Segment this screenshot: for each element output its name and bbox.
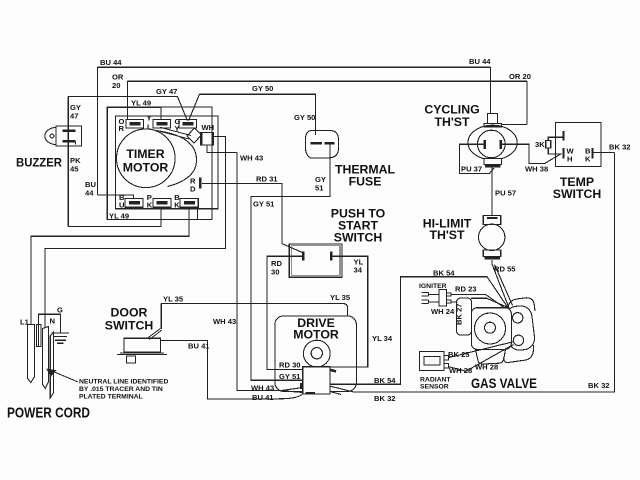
svg-text:K: K xyxy=(174,201,180,210)
svg-text:GY 51: GY 51 xyxy=(279,372,301,381)
svg-text:RADIANT: RADIANT xyxy=(420,377,451,384)
drive motor box xyxy=(275,316,357,392)
temp switch BK bar xyxy=(591,148,593,159)
wire PK45 xyxy=(68,208,161,227)
wire RD31 xyxy=(202,184,303,253)
gas valve bottom lobe right xyxy=(504,345,534,363)
temp switch box xyxy=(556,122,602,166)
power cord sheath xyxy=(50,332,53,398)
temp switch top bar xyxy=(562,131,564,141)
svg-text:GY 50: GY 50 xyxy=(294,113,315,122)
timer cam diamond xyxy=(187,128,202,143)
terminal BU xyxy=(125,198,143,207)
svg-text:BU 41: BU 41 xyxy=(188,342,210,351)
radiant sensor box xyxy=(420,352,445,371)
igniter body xyxy=(439,290,451,306)
svg-text:30: 30 xyxy=(271,268,279,277)
svg-text:BU 44: BU 44 xyxy=(100,58,122,67)
svg-text:BK 32: BK 32 xyxy=(609,143,631,152)
wire GY51 xyxy=(251,144,330,380)
terminal GY xyxy=(179,119,197,128)
svg-text:NEUTRAL LINE IDENTIFIED: NEUTRAL LINE IDENTIFIED xyxy=(79,379,168,386)
svg-text:WH: WH xyxy=(202,123,215,132)
svg-text:R: R xyxy=(119,124,125,133)
igniter forks xyxy=(422,293,439,297)
wire BK to L1 xyxy=(31,208,189,326)
svg-text:BY .015 TRACER AND TIN: BY .015 TRACER AND TIN xyxy=(79,386,163,393)
gas valve inner circle xyxy=(485,322,496,333)
svg-text:RD 55: RD 55 xyxy=(494,265,516,274)
svg-text:BU 41: BU 41 xyxy=(252,393,274,402)
push-to-start switch box xyxy=(289,244,342,277)
svg-text:D: D xyxy=(190,185,196,194)
svg-text:44: 44 xyxy=(85,189,94,198)
svg-text:WH 28: WH 28 xyxy=(475,363,498,372)
svg-text:K: K xyxy=(147,201,153,210)
svg-text:47: 47 xyxy=(70,112,78,121)
svg-text:BK 54: BK 54 xyxy=(374,376,396,385)
svg-text:H: H xyxy=(567,155,572,164)
temp switch WH bar xyxy=(562,148,564,159)
svg-text:BUZZER: BUZZER xyxy=(16,156,62,170)
wire WH neutral xyxy=(45,137,226,330)
gas valve bottom lobe left xyxy=(476,350,506,365)
wire OR20 xyxy=(128,81,528,124)
gas valve top lobe xyxy=(508,298,535,311)
neutral arrow xyxy=(54,372,78,382)
svg-text:OR 20: OR 20 xyxy=(509,72,531,81)
terminal BK xyxy=(180,198,198,207)
svg-text:TIMER: TIMER xyxy=(126,147,164,161)
svg-text:YL 34: YL 34 xyxy=(372,334,393,343)
wire RD23 xyxy=(451,294,510,311)
terminal YL xyxy=(153,119,171,128)
timer outer box (YL49) xyxy=(107,107,212,219)
svg-text:BK 32: BK 32 xyxy=(374,394,396,403)
wire BK25 xyxy=(449,342,514,358)
svg-text:WH 28: WH 28 xyxy=(449,366,472,375)
resistor 3K xyxy=(546,140,551,148)
buzzer xyxy=(45,127,69,144)
gas valve BK27 block xyxy=(457,298,472,335)
svg-text:BK 25: BK 25 xyxy=(448,350,470,359)
svg-text:PU 57: PU 57 xyxy=(495,189,516,198)
pts terminal bars xyxy=(303,252,331,261)
svg-text:PLATED TERMINAL: PLATED TERMINAL xyxy=(79,394,143,401)
svg-text:GY 47: GY 47 xyxy=(156,87,177,96)
power cord prong L1 xyxy=(27,325,34,383)
svg-text:L1: L1 xyxy=(20,318,30,327)
svg-text:GY 51: GY 51 xyxy=(253,200,275,209)
svg-text:N: N xyxy=(50,317,55,326)
svg-text:SWITCH: SWITCH xyxy=(334,231,383,245)
svg-text:YL 35: YL 35 xyxy=(163,295,184,304)
svg-text:L: L xyxy=(147,123,152,132)
svg-text:WH 38: WH 38 xyxy=(525,165,548,174)
svg-text:G: G xyxy=(57,306,63,315)
svg-text:SWITCH: SWITCH xyxy=(105,319,154,333)
gas valve capsule bracket xyxy=(504,305,536,352)
wire 3K branch temp switch xyxy=(548,137,563,154)
wh43 lug xyxy=(281,388,303,393)
wire GY50 xyxy=(189,94,316,135)
svg-text:K: K xyxy=(585,155,591,164)
svg-text:YL 35: YL 35 xyxy=(330,293,351,302)
ground symbol xyxy=(52,333,70,343)
svg-text:YL 49: YL 49 xyxy=(109,212,129,221)
svg-text:POWER CORD: POWER CORD xyxy=(7,406,90,422)
svg-text:U: U xyxy=(119,201,125,210)
wire WH43 vertical xyxy=(237,153,281,391)
wire WH38 xyxy=(502,144,562,163)
wire BU44 top xyxy=(98,67,491,198)
N box xyxy=(39,314,61,347)
power cord prong mid xyxy=(37,325,41,347)
wire YL34 xyxy=(330,256,368,367)
svg-text:51: 51 xyxy=(315,184,324,193)
svg-text:RD 30: RD 30 xyxy=(279,361,301,370)
hi-limit thermostat xyxy=(483,215,501,224)
svg-text:Y: Y xyxy=(175,124,180,133)
timer inner box xyxy=(116,116,219,209)
wire BK32 bottom and right xyxy=(353,153,615,392)
svg-text:RD 23: RD 23 xyxy=(455,285,477,294)
svg-text:GAS VALVE: GAS VALVE xyxy=(471,376,537,391)
door switch xyxy=(124,338,161,352)
wire YL35 xyxy=(161,304,347,329)
wire PU57 xyxy=(491,168,493,216)
drive motor connector lug BK32 xyxy=(330,386,353,394)
svg-text:45: 45 xyxy=(70,165,79,174)
wire igniter lower to valve xyxy=(451,301,458,303)
terminal OR xyxy=(126,119,144,128)
svg-text:3K: 3K xyxy=(535,140,545,149)
gas valve big circle xyxy=(475,313,506,344)
wire GY47 xyxy=(68,97,187,227)
gas valve top edge xyxy=(471,298,508,307)
svg-text:BK 32: BK 32 xyxy=(588,381,610,390)
timer motor circle xyxy=(117,129,176,188)
svg-text:WH 43: WH 43 xyxy=(251,384,274,393)
timer belt wedge xyxy=(156,131,197,187)
wire WH28 xyxy=(449,345,514,372)
svg-text:RD 31: RD 31 xyxy=(256,175,278,184)
power cord prong N xyxy=(42,327,48,389)
wire YL49 loop xyxy=(107,107,197,219)
svg-text:FUSE: FUSE xyxy=(349,175,382,189)
svg-text:SENSOR: SENSOR xyxy=(420,384,449,391)
svg-text:WH 43: WH 43 xyxy=(240,154,263,163)
gas valve coil box xyxy=(471,308,511,350)
svg-text:BU 44: BU 44 xyxy=(469,57,491,66)
gas valve screw bottom xyxy=(513,335,523,345)
svg-text:TH'ST: TH'ST xyxy=(429,228,465,242)
svg-text:YL 49: YL 49 xyxy=(131,99,151,108)
svg-text:DOOR: DOOR xyxy=(111,306,148,320)
svg-text:PU 37: PU 37 xyxy=(461,165,482,174)
cycling thermostat xyxy=(488,114,498,124)
drive motor connector xyxy=(303,367,330,394)
svg-text:MOTOR: MOTOR xyxy=(293,328,339,342)
svg-text:TH'ST: TH'ST xyxy=(434,115,470,129)
gas valve screw top xyxy=(513,313,523,323)
drive motor hub xyxy=(303,340,330,367)
terminal RD bar xyxy=(199,178,202,189)
svg-text:SWITCH: SWITCH xyxy=(553,187,602,201)
svg-text:IGNITER: IGNITER xyxy=(419,283,447,290)
svg-text:34: 34 xyxy=(354,266,363,275)
thermal fuse body xyxy=(306,131,339,159)
wire BU41 xyxy=(161,340,302,399)
svg-text:BK 27: BK 27 xyxy=(455,303,464,325)
wire RD30 xyxy=(267,256,303,369)
svg-text:MOTOR: MOTOR xyxy=(123,161,169,175)
svg-text:GY 50: GY 50 xyxy=(252,84,273,93)
svg-text:BK 54: BK 54 xyxy=(433,269,455,278)
terminal PK xyxy=(153,198,171,207)
wire BK54 xyxy=(330,277,509,385)
svg-text:20: 20 xyxy=(112,81,120,90)
wire RD55 pair xyxy=(492,260,513,308)
wire PU37 loop xyxy=(460,144,495,173)
svg-text:WH 43: WH 43 xyxy=(213,317,236,326)
svg-text:WH 24: WH 24 xyxy=(431,307,455,316)
wire WH43 jog from WH box xyxy=(207,145,237,153)
svg-text:Y: Y xyxy=(147,114,152,123)
terminal WH box xyxy=(201,133,214,145)
